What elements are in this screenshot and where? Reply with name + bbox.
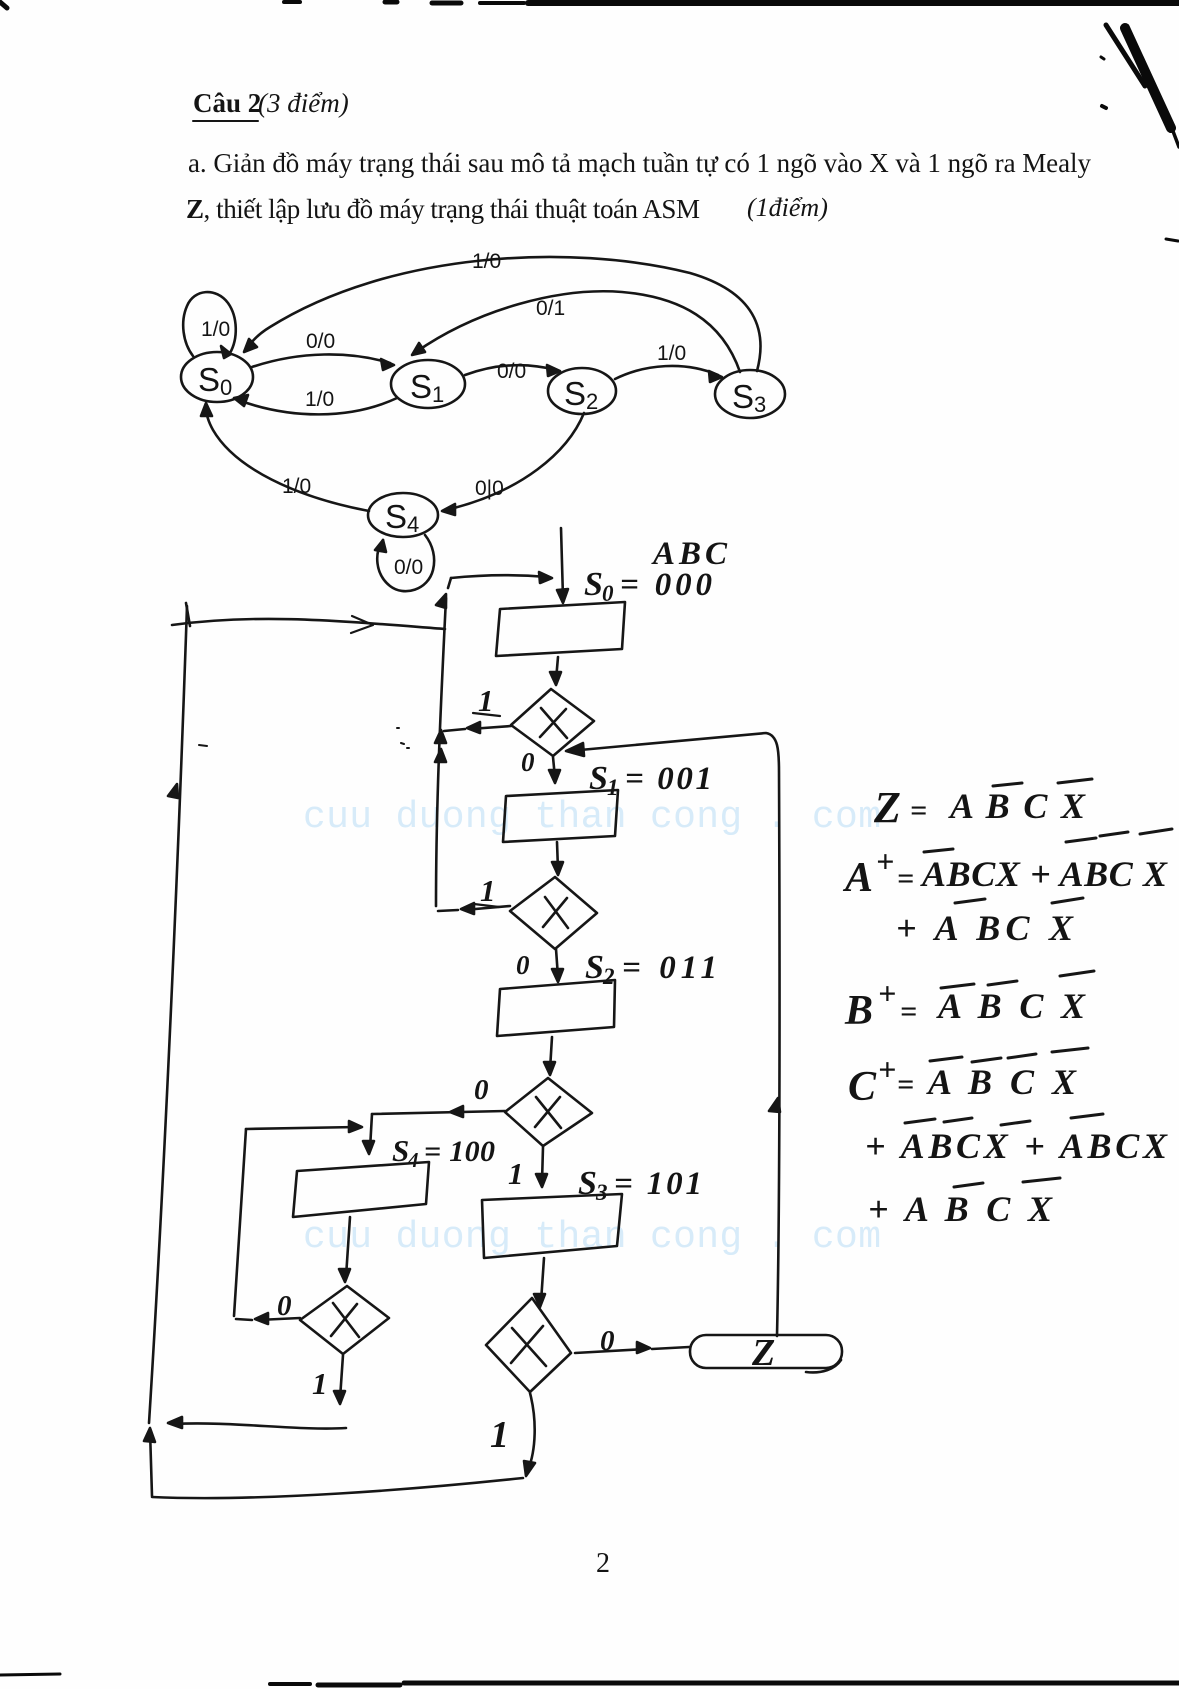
wire: Z feedback vertical up to decision 1 [580, 733, 780, 1336]
state box S3 [482, 1194, 622, 1258]
svg-text:(1điểm): (1điểm) [747, 193, 828, 222]
svg-text:1/0: 1/0 [472, 250, 501, 273]
transition S3->S0 top arc 1/0 [247, 257, 760, 371]
wire S1 box to decision 2 [557, 842, 558, 870]
state S4 [368, 493, 438, 537]
transition S4->S0 1/0 [206, 407, 369, 511]
wire: left loop vertical (decision 4 zero branch up) [234, 1129, 246, 1316]
state box S2 [497, 980, 615, 1036]
transition S4 self-loop 0/0 [377, 535, 434, 591]
svg-text:= 000: = 000 [620, 567, 714, 603]
svg-text:S0: S0 [198, 361, 232, 400]
wire: loop entry horizontal into S4 box [246, 1127, 357, 1129]
svg-text:cuu duong than cong . com: cuu duong than cong . com [303, 796, 881, 839]
scan noise dots [199, 728, 409, 748]
svg-text:= 001: = 001 [625, 761, 714, 797]
svg-text:a. Giản đồ máy trạng thái sau: a. Giản đồ máy trạng thái sau mô tả mạch… [188, 148, 1092, 178]
svg-text:0|0: 0|0 [475, 477, 504, 500]
svg-text:Z: Z [873, 783, 907, 832]
svg-text:+ A BC X: + A BC X [896, 908, 1079, 948]
transition S0 self-loop 1/0 [183, 292, 236, 356]
svg-text:S2: S2 [564, 375, 598, 414]
wire: decision 2 left to feedback [438, 906, 510, 911]
svg-text:1/0: 1/0 [305, 388, 334, 411]
wire: entry vertical into S0 box [561, 528, 563, 598]
svg-text:S4: S4 [385, 498, 419, 537]
svg-text:A B C X: A B C X [948, 786, 1091, 826]
wire: decision 4 left to loop vertical [236, 1318, 300, 1320]
state box S0 [496, 602, 625, 656]
wire: decision 5 one-branch down [528, 1393, 535, 1470]
wire: far-left tall vertical [149, 606, 187, 1423]
svg-text:+: + [878, 975, 902, 1011]
wire S4 box to decision 4 [346, 1217, 350, 1277]
svg-text:=: = [897, 862, 920, 895]
transition S0->S1 0/0 [252, 354, 390, 367]
svg-text:Z: Z [751, 1332, 775, 1374]
transition S3->S1 0/1 [416, 291, 740, 372]
decision X 1 [511, 689, 594, 756]
wire: bottom wavy line [152, 1478, 523, 1498]
svg-text:=: = [910, 794, 933, 827]
svg-text:ABCX + ABC X: ABCX + ABC X [920, 854, 1173, 894]
svg-text:1: 1 [480, 873, 496, 908]
wire: horizontal to far-left line [174, 1423, 346, 1428]
transition S1->S2 0/0 [465, 365, 556, 375]
wire decision 1 to S1 box [553, 757, 555, 778]
state S2 [548, 368, 616, 414]
svg-text:0: 0 [277, 1290, 292, 1322]
wire: lower-left vertical [150, 1430, 152, 1496]
svg-text:+ ABCX + ABCX: + ABCX + ABCX [865, 1126, 1173, 1166]
svg-text:0/0: 0/0 [394, 556, 423, 579]
svg-text:4: 4 [407, 1148, 419, 1172]
svg-text:1/0: 1/0 [282, 475, 311, 498]
svg-text:1: 1 [508, 1156, 524, 1191]
svg-text:3: 3 [595, 1180, 608, 1205]
svg-text:0/0: 0/0 [306, 330, 335, 353]
wire: feedback vertical (1-branches up) [436, 598, 446, 906]
wire: top horizontal into entry [451, 575, 548, 578]
state S0 [181, 352, 253, 402]
transition S2->S3 1/0 [615, 366, 718, 379]
svg-text:+ A B C X: + A B C X [868, 1189, 1058, 1229]
wire: decision 5 right to Z [575, 1347, 689, 1353]
printed title: Cau 2 (3 diem) [193, 88, 349, 118]
state box S1 [503, 790, 618, 842]
svg-text:Câu 2: Câu 2 [193, 88, 261, 118]
svg-text:0/0: 0/0 [497, 360, 526, 383]
wire S2 box to decision 3 [550, 1037, 552, 1070]
svg-text:C: C [848, 1064, 882, 1110]
wire: decision 1 left to feedback [444, 726, 511, 731]
svg-text:= 100: = 100 [424, 1135, 496, 1168]
wire: decision 4 down [340, 1355, 343, 1399]
svg-text:1: 1 [490, 1414, 509, 1456]
transition S2->S4 0/0 [446, 413, 584, 510]
svg-text:B: B [844, 988, 879, 1034]
wire: top-left horizontal with chevron [172, 619, 445, 629]
scan artifact: top-right diagonal pen marks [1101, 25, 1179, 241]
svg-text:1/0: 1/0 [201, 318, 230, 341]
svg-text:= 011: = 011 [622, 950, 719, 986]
wire decision 2 to S2 box [556, 949, 558, 977]
equation overbars [905, 779, 1172, 1187]
decision X 3 [505, 1078, 592, 1146]
scan artifact: bottom edge bars [0, 1674, 1179, 1685]
svg-text:2: 2 [596, 1548, 610, 1579]
svg-text:(3 điểm): (3 điểm) [258, 88, 349, 118]
svg-text:cuu duong than cong . com: cuu duong than cong . com [303, 1216, 881, 1259]
svg-text:A B C X: A B C X [926, 1062, 1082, 1102]
decision X 2 [510, 877, 597, 949]
svg-text:A: A [842, 855, 879, 901]
state S3 [715, 370, 785, 418]
svg-text:S3: S3 [732, 378, 766, 417]
svg-text:A B C X: A B C X [936, 986, 1091, 1026]
output oval Z [690, 1335, 842, 1368]
svg-text:Z, thiết lập lưu đồ máy trạng: Z, thiết lập lưu đồ máy trạng thái thuật… [186, 194, 700, 224]
svg-text:0: 0 [474, 1074, 489, 1106]
wire S3 box to decision 5 [541, 1258, 544, 1302]
svg-text:=: = [897, 1068, 920, 1101]
wire decision 3 to S3 box [542, 1147, 543, 1182]
svg-text:S: S [584, 566, 603, 603]
svg-text:0: 0 [516, 950, 530, 980]
svg-text:= 101: = 101 [614, 1166, 704, 1202]
state S1 [391, 360, 465, 408]
wire: decision 3 left branch to S4 box [372, 1111, 505, 1114]
svg-text:1: 1 [312, 1366, 328, 1401]
svg-text:0: 0 [521, 747, 535, 777]
svg-text:1/0: 1/0 [657, 342, 686, 365]
transition S1->S0 1/0 [238, 398, 397, 414]
decision X 5 [486, 1298, 571, 1392]
state box S4 [293, 1162, 429, 1217]
svg-text:2: 2 [602, 964, 615, 989]
wire S0 box to decision 1 [556, 657, 558, 680]
svg-text:S1: S1 [410, 368, 444, 407]
svg-text:0/1: 0/1 [536, 297, 565, 320]
svg-text:=: = [900, 995, 923, 1028]
printed paragraph line Z [186, 193, 828, 224]
scan artifact: top edge bars [0, 2, 1179, 8]
decision X 4 [300, 1286, 389, 1354]
